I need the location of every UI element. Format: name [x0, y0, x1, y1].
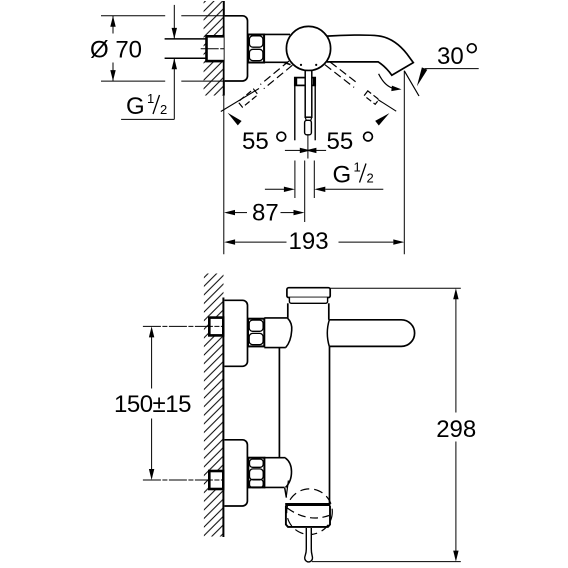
bottom inlet pipe square (side view): [209, 471, 223, 489]
union hex nut (top view): [248, 35, 264, 63]
lever handle outer grip (top view): [295, 83, 315, 140]
lever handle (side view): [330, 320, 415, 347]
bottom escutcheon (side view): [225, 440, 248, 506]
body taper to outlet (side view): [285, 488, 287, 498]
55 deg reference line right: [378, 100, 396, 112]
lever neck arc (side view): [327, 320, 329, 347]
outlet cup (side view): [286, 506, 330, 527]
298 extension lines: [330, 287, 460, 289]
body neck (side view): [287, 303, 289, 318]
298 dimension line and arrows: [453, 288, 458, 299]
svg-text:55: 55: [327, 128, 354, 155]
svg-text:193: 193: [289, 228, 329, 255]
union cone piece (top view): [264, 34, 290, 64]
top inlet pipe square (side view): [209, 318, 223, 336]
30 deg tick line: [404, 71, 419, 96]
30 deg swing arc: [379, 74, 396, 89]
svg-text:87: 87: [252, 200, 279, 227]
193 dimension: [224, 239, 235, 244]
svg-text:Ø 70: Ø 70: [90, 37, 142, 64]
spout (top view): [327, 35, 414, 75]
faucet cap (side view): [287, 288, 330, 298]
150 +/- 15 dimension: [149, 326, 154, 337]
87 extension line (faucet axis): [304, 161, 306, 223]
svg-text:G: G: [126, 93, 145, 120]
svg-text:2: 2: [160, 102, 167, 117]
svg-text:1: 1: [354, 160, 361, 175]
spout tip extension line: [403, 71, 405, 254]
dashed lever at 55 deg right: [325, 62, 358, 87]
G 1/2 dimension (wall pipe thread, top view left): [173, 5, 175, 39]
bottom inlet centerline / 150 extension: [143, 479, 231, 481]
O70 dimension line and arrows: [112, 16, 114, 34]
svg-text:2: 2: [367, 171, 374, 186]
lever shaft (top view): [305, 71, 312, 118]
bottom union hex nut (side view): [248, 458, 264, 488]
svg-text:298: 298: [436, 416, 476, 443]
O70 extension lines: [101, 16, 224, 81]
87 dimension: [224, 210, 235, 215]
55 deg arrowhead right: [375, 113, 389, 125]
cap ring (side view): [289, 298, 327, 304]
top union hex nut (side view): [248, 319, 264, 347]
lever collar ring (top view): [295, 78, 315, 86]
aerator ball equator dashed arc: [287, 508, 329, 518]
svg-text:1: 1: [147, 91, 154, 106]
pipe centerline (top view): [201, 48, 232, 50]
aerator dashed circle (side view): [287, 489, 333, 535]
G 1/2 extension lines (lever thread, top view): [294, 161, 296, 199]
wall extension line down to 193 dimension: [223, 96, 225, 255]
svg-text:30: 30: [437, 43, 464, 70]
bottom union cone and ball (side view): [264, 458, 291, 488]
G 1/2 dimension arrows (top view right): [265, 188, 284, 190]
body sleeve left edge (side view): [278, 348, 280, 458]
svg-text:G: G: [333, 162, 352, 189]
top inlet centerline / 150 extension: [143, 325, 231, 327]
outlet cup top thick line (side view): [285, 503, 330, 506]
top union cone and ball (side view): [264, 318, 291, 348]
screw dots on sphere: [300, 64, 302, 66]
body right edge (side view): [329, 346, 331, 503]
30 deg leader: [425, 68, 479, 70]
55 deg arrowhead left: [228, 113, 242, 126]
dashed lever at 55 deg left: [260, 61, 292, 89]
top escutcheon (side view): [225, 300, 248, 366]
svg-text:55: 55: [242, 128, 269, 155]
pipe square flange in wall (top view): [207, 36, 226, 61]
wall face line (side view): [222, 298, 224, 538]
55 deg bowtie arrows at lever centerline: [285, 149, 300, 151]
escutcheon (top view): [225, 16, 248, 81]
lever centerline (top view): [307, 135, 309, 159]
lever blade tip (top view): [305, 120, 312, 135]
wall hatch (side view): [204, 274, 224, 537]
water drip (side view): [305, 528, 313, 562]
wall hatch (top view): [204, 1, 224, 96]
wall face line (top view): [223, 1, 225, 96]
cartridge sphere (top view): [286, 26, 330, 70]
55 deg reference line left: [221, 89, 259, 112]
inlet pipe nipple (top view): [165, 39, 207, 58]
svg-text:150±15: 150±15: [114, 391, 191, 418]
